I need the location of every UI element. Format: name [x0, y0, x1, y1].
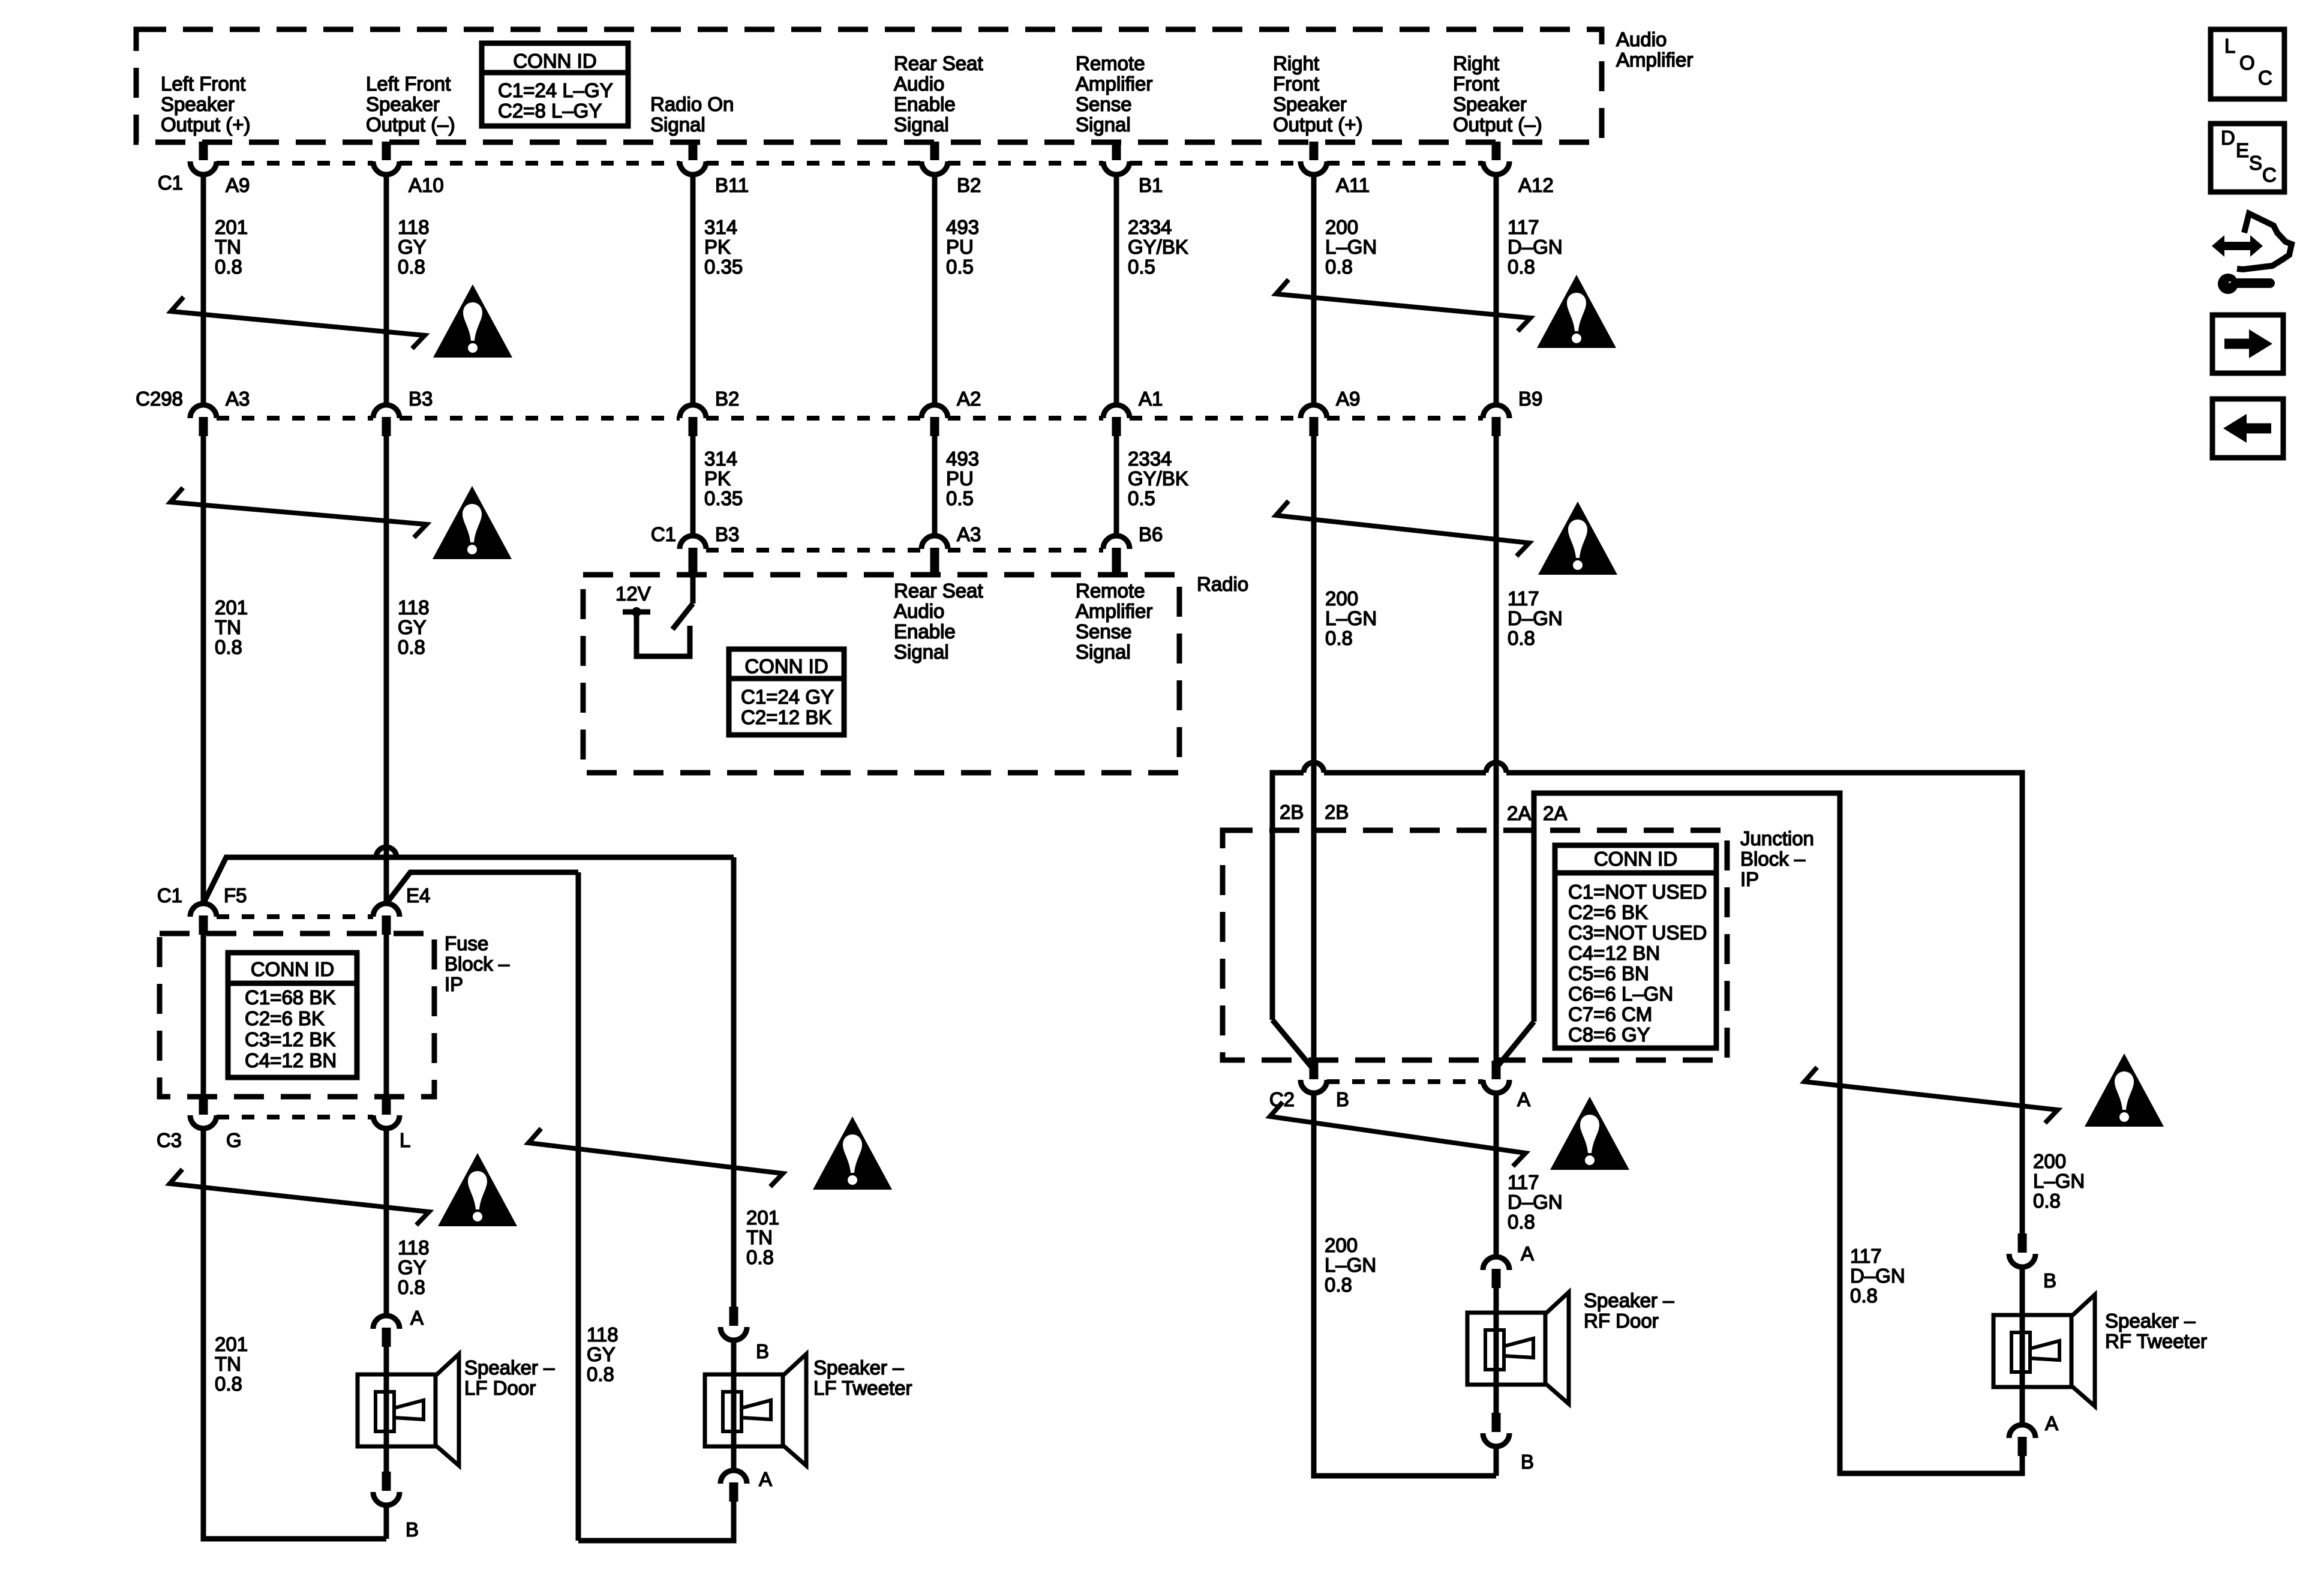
svg-text:IP: IP — [1740, 868, 1759, 890]
audio amplifier box (dashed) — [136, 29, 1602, 142]
wire 2334 GY/BK C298 to radio C1 — [1114, 435, 1119, 536]
svg-text:0.5: 0.5 — [1128, 256, 1155, 278]
connector C1 pin A9 — [199, 142, 208, 160]
wire 201 TN through fuse block — [201, 933, 206, 1098]
svg-text:TN: TN — [215, 236, 241, 258]
svg-text:117: 117 — [1508, 216, 1539, 238]
connector C298 pin B9 — [1483, 405, 1509, 418]
svg-text:PK: PK — [704, 236, 731, 258]
svg-text:0.5: 0.5 — [946, 256, 974, 278]
svg-text:117: 117 — [1508, 1171, 1539, 1193]
svg-text:Speaker –: Speaker – — [464, 1356, 555, 1379]
svg-text:Output (–): Output (–) — [1453, 113, 1542, 136]
svg-text:A11: A11 — [1336, 174, 1370, 196]
svg-text:A10: A10 — [409, 174, 444, 196]
svg-text:C: C — [2258, 67, 2272, 89]
icon forward arrow box — [2212, 315, 2283, 373]
svg-text:Speaker: Speaker — [1453, 93, 1527, 115]
svg-text:C2=12 BK: C2=12 BK — [741, 706, 831, 728]
svg-text:Left Front: Left Front — [161, 73, 245, 95]
svg-text:201: 201 — [215, 1333, 248, 1355]
svg-text:Sense: Sense — [1076, 93, 1132, 115]
wire 200 L-GN junction B to RF door return — [1314, 1093, 1496, 1476]
svg-text:F5: F5 — [224, 884, 247, 906]
svg-text:Right: Right — [1453, 52, 1499, 74]
svg-text:C5=6 BN: C5=6 BN — [1568, 962, 1649, 984]
svg-text:C1: C1 — [158, 172, 183, 194]
wire 200 L-GN C298 to junction block — [1311, 435, 1317, 1063]
svg-text:0.8: 0.8 — [398, 636, 425, 658]
note arrow (twisted pair, junction outputs) — [1270, 1102, 1526, 1166]
note arrow (twisted pair, LF tweeter pair) — [529, 1128, 783, 1187]
wire 201 TN C298 to fuse block C1 — [201, 435, 206, 903]
note arrow (twisted pair, upper right) — [1276, 280, 1530, 331]
svg-text:0.8: 0.8 — [215, 256, 242, 278]
svg-text:B: B — [756, 1340, 769, 1362]
svg-text:B11: B11 — [715, 174, 749, 196]
svg-text:A: A — [410, 1307, 424, 1329]
svg-text:Enable: Enable — [894, 620, 956, 643]
svg-text:Front: Front — [1453, 73, 1499, 95]
connector C298 pin A9 — [1301, 405, 1327, 418]
svg-text:0.8: 0.8 — [587, 1363, 614, 1385]
connector C1 pin B11 — [689, 142, 698, 160]
svg-text:D–GN: D–GN — [1508, 236, 1563, 258]
connector A at LF door — [373, 1316, 400, 1329]
wire into RF tweeter speaker — [2020, 1267, 2025, 1425]
svg-text:C3=NOT USED: C3=NOT USED — [1568, 921, 1707, 944]
connector C1 pin A12 — [1492, 142, 1501, 160]
radio CONN ID table — [729, 649, 844, 735]
svg-text:LF Door: LF Door — [464, 1377, 536, 1399]
svg-text:Remote: Remote — [1076, 52, 1145, 74]
svg-text:A9: A9 — [226, 174, 250, 196]
svg-text:L–GN: L–GN — [1325, 1254, 1376, 1276]
svg-text:B9: B9 — [1518, 388, 1542, 410]
svg-text:Junction: Junction — [1740, 827, 1814, 849]
note arrow (twisted pair, upper left) — [171, 297, 425, 349]
svg-text:0.8: 0.8 — [398, 1276, 425, 1298]
svg-text:Signal: Signal — [1076, 641, 1131, 663]
radio connector pin B6 — [1103, 536, 1130, 549]
junction block box (dashed) — [1223, 830, 1727, 1060]
svg-text:CONN ID: CONN ID — [744, 655, 828, 677]
svg-text:314: 314 — [704, 216, 737, 238]
svg-text:Audio: Audio — [894, 600, 944, 622]
svg-text:B1: B1 — [1139, 174, 1163, 196]
svg-text:0.35: 0.35 — [704, 256, 743, 278]
svg-text:314: 314 — [704, 448, 737, 470]
svg-text:Radio: Radio — [1197, 573, 1248, 595]
speaker RF Tweeter symbol — [1993, 1315, 2071, 1387]
svg-text:C2=8 L–GY: C2=8 L–GY — [498, 100, 602, 122]
switch wire from 12V node to fixed contact — [636, 612, 690, 656]
svg-text:118: 118 — [587, 1323, 618, 1346]
connector line C2 (junction block) — [1327, 1079, 1483, 1084]
hop over 118 GY wire — [376, 847, 397, 857]
speaker LF Tweeter symbol — [705, 1374, 783, 1446]
wire 118 GY through fuse block — [384, 933, 389, 1098]
svg-text:B: B — [1336, 1088, 1349, 1110]
connector B at LF door — [382, 1472, 391, 1491]
svg-text:Amplifier: Amplifier — [1616, 49, 1693, 71]
radio connector pin B3 — [680, 536, 706, 549]
svg-text:Rear Seat: Rear Seat — [894, 52, 983, 74]
wire 201 TN amp to C298 — [201, 176, 206, 404]
svg-text:Sense: Sense — [1076, 620, 1132, 643]
svg-text:GY: GY — [398, 1256, 427, 1278]
fuse block box (dashed) — [160, 933, 434, 1097]
wire 201 TN fuse G to LF door return — [203, 1128, 386, 1539]
svg-text:Fuse: Fuse — [445, 932, 488, 954]
radio box (dashed) — [583, 575, 1179, 773]
svg-text:200: 200 — [1325, 587, 1358, 610]
svg-text:C4=12 BN: C4=12 BN — [1568, 942, 1660, 964]
svg-text:Remote: Remote — [1076, 580, 1145, 602]
connector C1 pin B2 — [930, 142, 939, 160]
svg-text:GY: GY — [398, 236, 427, 258]
junction connector pin A — [1492, 1061, 1501, 1079]
svg-text:C1=24 L–GY: C1=24 L–GY — [498, 79, 613, 101]
svg-text:C7=6 CM: C7=6 CM — [1568, 1003, 1652, 1025]
svg-text:D–GN: D–GN — [1508, 607, 1563, 629]
wire 493 PU C298 to radio C1 — [932, 435, 938, 536]
svg-text:RF Tweeter: RF Tweeter — [2105, 1330, 2207, 1352]
svg-text:0.8: 0.8 — [1508, 1211, 1535, 1233]
caution triangle 3 — [433, 486, 512, 559]
wire below LF door B — [384, 1505, 389, 1539]
svg-text:L–GN: L–GN — [1325, 236, 1377, 258]
wire 314 PK amp to C298 — [690, 176, 696, 404]
caution triangle 5 — [438, 1153, 517, 1226]
svg-text:D–GN: D–GN — [1508, 1191, 1563, 1213]
svg-text:0.8: 0.8 — [1325, 256, 1353, 278]
hop over wire A12 — [1486, 763, 1506, 773]
svg-text:B2: B2 — [957, 174, 981, 196]
wire 118 GY fuse L to LF door — [384, 1128, 389, 1314]
svg-text:RF Door: RF Door — [1584, 1310, 1659, 1332]
speaker RF Door symbol — [1467, 1313, 1545, 1385]
svg-text:IP: IP — [445, 973, 463, 995]
connector A at RF tweeter — [2009, 1425, 2035, 1438]
svg-text:Signal: Signal — [650, 113, 705, 136]
svg-text:A12: A12 — [1518, 174, 1554, 196]
connector C298 pin A3 — [190, 405, 217, 418]
svg-text:C3: C3 — [157, 1129, 182, 1151]
svg-text:GY/BK: GY/BK — [1128, 236, 1188, 258]
svg-text:C3=12 BK: C3=12 BK — [245, 1028, 335, 1050]
svg-text:Amplifier: Amplifier — [1076, 600, 1152, 622]
svg-text:C1=24 GY: C1=24 GY — [741, 686, 834, 708]
svg-text:CONN ID: CONN ID — [513, 50, 596, 72]
wire 117 D-GN junction A to RF door — [1494, 1093, 1499, 1256]
svg-text:C1=68 BK: C1=68 BK — [245, 986, 335, 1008]
svg-text:Right: Right — [1273, 52, 1319, 74]
svg-text:C2=6 BK: C2=6 BK — [245, 1007, 325, 1029]
fuse block connector diagonal from E4 — [386, 872, 578, 903]
connector C298 pin B3 — [373, 405, 400, 418]
svg-text:Audio: Audio — [1616, 28, 1667, 50]
caution triangle 6 — [813, 1116, 892, 1190]
svg-text:L–GN: L–GN — [2033, 1170, 2085, 1192]
svg-text:Block –: Block – — [445, 953, 510, 975]
svg-text:A: A — [1521, 1242, 1534, 1265]
junction feed line to right edge — [1506, 773, 2022, 1235]
svg-text:C1: C1 — [157, 884, 182, 906]
svg-text:Rear Seat: Rear Seat — [894, 580, 983, 602]
junction feed line continues — [1324, 770, 1486, 776]
connector line C1 (radio) — [706, 548, 921, 553]
svg-text:PU: PU — [946, 236, 974, 258]
svg-text:2334: 2334 — [1128, 216, 1172, 238]
svg-text:GY/BK: GY/BK — [1128, 467, 1188, 490]
svg-text:L: L — [400, 1129, 410, 1151]
wire below RF door B — [1494, 1446, 1499, 1476]
svg-text:118: 118 — [398, 596, 430, 619]
svg-text:C2=6 BK: C2=6 BK — [1568, 901, 1648, 923]
svg-text:TN: TN — [746, 1226, 773, 1248]
svg-text:Radio On: Radio On — [650, 93, 734, 115]
svg-text:0.8: 0.8 — [1508, 256, 1535, 278]
svg-text:0.8: 0.8 — [746, 1246, 774, 1268]
connector C1 pin A10 — [382, 142, 391, 160]
note arrow (twisted pair, mid right) — [1276, 501, 1529, 556]
wire 118 GY C298 to fuse block C1 — [384, 435, 389, 903]
svg-text:TN: TN — [215, 1353, 241, 1375]
wire 118 GY return from E4 (vertical) — [576, 872, 581, 1541]
svg-text:118: 118 — [398, 216, 430, 238]
svg-text:B3: B3 — [715, 523, 739, 545]
svg-text:E: E — [2236, 139, 2249, 161]
svg-text:Output (+): Output (+) — [1273, 113, 1362, 136]
svg-text:493: 493 — [946, 448, 979, 470]
svg-text:CONN ID: CONN ID — [251, 958, 334, 980]
caution triangle 4 — [1538, 502, 1617, 575]
radio connector pin A3 — [921, 536, 948, 549]
svg-text:Speaker –: Speaker – — [813, 1356, 904, 1379]
speaker LF Door symbol — [358, 1374, 436, 1446]
svg-text:B6: B6 — [1139, 523, 1163, 545]
connector B at RF tweeter — [2018, 1233, 2027, 1253]
junction CONN ID table — [1555, 845, 1716, 1048]
fuse connector pin E4 — [373, 903, 400, 917]
svg-text:201: 201 — [746, 1206, 779, 1229]
caution triangle 2 — [1537, 275, 1616, 348]
connector A at RF door — [1483, 1257, 1509, 1270]
icon DESC box — [2211, 124, 2284, 192]
svg-text:0.8: 0.8 — [1850, 1284, 1878, 1307]
fuse connector pin F5 — [190, 903, 217, 917]
connector A at LF tweeter — [720, 1470, 747, 1484]
svg-text:A9: A9 — [1336, 388, 1360, 410]
svg-text:201: 201 — [215, 596, 248, 619]
svg-text:S: S — [2249, 152, 2262, 174]
svg-text:2A: 2A — [1507, 802, 1531, 824]
svg-text:0.8: 0.8 — [398, 256, 425, 278]
connector line C1 (amp) — [217, 161, 373, 166]
svg-text:C1: C1 — [651, 523, 676, 545]
icon car harness with double arrow and wrench — [2222, 242, 2253, 250]
svg-text:B2: B2 — [715, 388, 739, 410]
svg-text:2A: 2A — [1543, 802, 1567, 824]
svg-text:GY: GY — [398, 616, 427, 638]
svg-text:0.5: 0.5 — [946, 487, 974, 509]
svg-text:Signal: Signal — [894, 641, 949, 663]
svg-text:0.35: 0.35 — [704, 487, 743, 509]
fuse connector pin G — [199, 1095, 208, 1115]
svg-text:12V: 12V — [615, 583, 651, 605]
svg-text:2B: 2B — [1280, 801, 1304, 823]
svg-text:117: 117 — [1850, 1245, 1882, 1267]
svg-text:Speaker: Speaker — [1273, 93, 1347, 115]
svg-text:L–GN: L–GN — [1325, 607, 1377, 629]
wire below LF tweeter A — [578, 1502, 734, 1541]
connector line C1 (fuse block) — [217, 914, 373, 919]
svg-text:200: 200 — [1325, 1234, 1358, 1256]
svg-text:Output (–): Output (–) — [366, 113, 455, 136]
svg-text:B: B — [2043, 1269, 2056, 1292]
svg-text:Front: Front — [1273, 73, 1319, 95]
wire 201 TN fuse F5 to LF tweeter (vertical) — [731, 857, 737, 1308]
fuse block connector diagonal from F5 to tweeter feed — [203, 857, 723, 903]
junction return line 117 D-GN from RF tweeter — [1534, 793, 2022, 1473]
connector B at RF door — [1492, 1413, 1501, 1432]
wire 200 L-GN amp to C298 — [1311, 176, 1317, 404]
svg-text:Output (+): Output (+) — [161, 113, 250, 136]
note arrow (twisted pair, fuse outputs) — [170, 1169, 429, 1225]
svg-text:Amplifier: Amplifier — [1076, 73, 1152, 95]
junction connector pin B — [1310, 1061, 1319, 1079]
svg-text:Speaker: Speaker — [161, 93, 235, 115]
12V feed bar and node — [623, 610, 650, 615]
svg-text:CONN ID: CONN ID — [1594, 848, 1677, 870]
svg-text:B: B — [1521, 1451, 1534, 1473]
svg-text:GY: GY — [587, 1343, 615, 1365]
caution triangle 1 — [433, 284, 512, 358]
connector line C298 — [217, 416, 373, 421]
junction 2B merge diagonal — [1272, 1020, 1313, 1069]
radio-on switch blade — [672, 604, 693, 629]
svg-text:D–GN: D–GN — [1850, 1265, 1905, 1287]
connector C298 pin A1 — [1103, 405, 1130, 418]
wire 314 PK C298 to radio C1 — [690, 435, 696, 536]
note arrow (twisted pair, mid left) — [170, 488, 427, 538]
svg-text:PU: PU — [946, 467, 974, 490]
connector C1 pin A11 — [1310, 142, 1319, 160]
amp CONN ID table — [482, 43, 628, 126]
svg-text:A2: A2 — [957, 388, 981, 410]
icon back arrow box — [2212, 399, 2283, 458]
connector line C3 (fuse block) — [217, 1115, 373, 1119]
svg-text:200: 200 — [1325, 216, 1358, 238]
svg-text:Signal: Signal — [1076, 113, 1131, 136]
caution triangle 7 — [1550, 1097, 1629, 1170]
wire into LF tweeter speaker — [731, 1340, 737, 1470]
svg-text:PK: PK — [704, 467, 731, 490]
svg-text:C8=6 GY: C8=6 GY — [1568, 1023, 1650, 1046]
svg-text:C: C — [2262, 164, 2277, 186]
svg-text:201: 201 — [215, 216, 248, 238]
fuse connector pin L — [382, 1095, 391, 1115]
connector C298 pin B2 — [680, 405, 706, 418]
wire into RF door speaker — [1494, 1288, 1499, 1414]
connector C298 pin A2 — [921, 405, 948, 418]
svg-text:0.8: 0.8 — [1325, 627, 1353, 649]
svg-text:Block –: Block – — [1740, 848, 1806, 870]
svg-text:B: B — [406, 1518, 419, 1541]
wire 118 GY amp to C298 — [384, 176, 389, 404]
svg-text:Audio: Audio — [894, 73, 944, 95]
svg-text:A3: A3 — [957, 523, 981, 545]
connector C1 pin B1 — [1112, 142, 1121, 160]
svg-text:118: 118 — [398, 1236, 430, 1259]
svg-text:2B: 2B — [1325, 801, 1349, 823]
icon LOC box — [2211, 29, 2284, 99]
svg-text:Signal: Signal — [894, 113, 949, 136]
junction 2A merge diagonal — [1497, 1022, 1534, 1067]
svg-text:200: 200 — [2033, 1150, 2066, 1172]
wire 2334 GY/BK amp to C298 — [1114, 176, 1119, 404]
fuse CONN ID table — [228, 953, 357, 1077]
svg-text:117: 117 — [1508, 587, 1539, 610]
caution triangle 8 — [2085, 1053, 2164, 1127]
wire into LF door speaker — [384, 1347, 389, 1473]
hop over wire A11 — [1304, 763, 1324, 773]
svg-text:0.5: 0.5 — [1128, 487, 1155, 509]
note arrow (twisted pair, RF tweeter pair) — [1804, 1067, 2058, 1123]
wire 117 D-GN amp to C298 — [1494, 176, 1499, 404]
svg-text:0.8: 0.8 — [215, 636, 242, 658]
svg-text:B3: B3 — [409, 388, 433, 410]
svg-text:C1=NOT USED: C1=NOT USED — [1568, 881, 1707, 903]
connector B at LF tweeter — [729, 1307, 738, 1326]
svg-text:0.8: 0.8 — [1325, 1274, 1352, 1296]
wire 117 D-GN C298 to junction block — [1494, 435, 1499, 1063]
junction feed line 200 L-GN to RF tweeter (top run) — [1272, 773, 1304, 1020]
svg-text:2334: 2334 — [1128, 448, 1172, 470]
svg-text:O: O — [2239, 52, 2255, 74]
svg-text:L: L — [2224, 35, 2235, 57]
svg-text:D: D — [2221, 127, 2235, 149]
svg-text:A: A — [1517, 1088, 1530, 1110]
svg-text:Speaker –: Speaker – — [1584, 1289, 1674, 1311]
svg-text:A3: A3 — [226, 388, 250, 410]
svg-text:0.8: 0.8 — [1508, 627, 1535, 649]
svg-text:Enable: Enable — [894, 93, 956, 115]
svg-text:LF Tweeter: LF Tweeter — [813, 1377, 912, 1399]
svg-text:0.8: 0.8 — [2033, 1190, 2061, 1212]
svg-text:C4=12 BN: C4=12 BN — [245, 1049, 337, 1071]
svg-text:Speaker: Speaker — [366, 93, 440, 115]
svg-text:Left Front: Left Front — [366, 73, 451, 95]
svg-text:TN: TN — [215, 616, 241, 638]
svg-text:Speaker –: Speaker – — [2105, 1310, 2196, 1332]
svg-text:493: 493 — [946, 216, 979, 238]
svg-text:C6=6 L–GN: C6=6 L–GN — [1568, 983, 1673, 1005]
svg-text:A: A — [2045, 1412, 2058, 1434]
svg-text:A1: A1 — [1139, 388, 1163, 410]
svg-text:A: A — [759, 1468, 772, 1490]
svg-text:C298: C298 — [136, 388, 183, 410]
wire 493 PU amp to C298 — [932, 176, 938, 404]
svg-text:G: G — [226, 1129, 242, 1151]
svg-text:E4: E4 — [406, 884, 430, 906]
svg-text:C2: C2 — [1269, 1088, 1295, 1110]
svg-text:0.8: 0.8 — [215, 1373, 242, 1395]
